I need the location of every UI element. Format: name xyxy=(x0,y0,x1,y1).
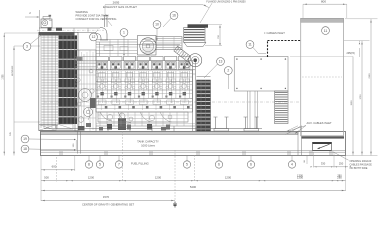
opening note xyxy=(333,152,372,170)
svg-text:18: 18 xyxy=(23,147,27,151)
balloon 6 at x=251 xyxy=(247,156,254,169)
svg-text:11: 11 xyxy=(248,43,252,47)
dimension row 500/1200/1200/1200/1300/280 xyxy=(41,175,346,181)
balloon 12 vent pipe xyxy=(90,30,98,41)
svg-text:6: 6 xyxy=(218,163,220,167)
svg-text:1000 Liters: 1000 Liters xyxy=(141,143,155,147)
svg-text:1200: 1200 xyxy=(225,175,232,179)
control cabinet xyxy=(301,18,344,138)
air outlet louvre xyxy=(275,91,289,124)
balloon 5 at x=187 xyxy=(183,156,190,169)
svg-text:1200: 1200 xyxy=(155,175,162,179)
svg-text:5: 5 xyxy=(186,163,188,167)
tank capacity note xyxy=(137,140,159,148)
left dimension 1676/1803 xyxy=(12,46,40,156)
small dimension 2 at radiator cap xyxy=(25,11,39,18)
flywheel housing xyxy=(193,60,196,131)
engine block detail xyxy=(96,70,193,112)
engine front gear housing xyxy=(75,50,96,132)
left dimension 1785 xyxy=(2,33,40,156)
dimension 60 xyxy=(304,156,307,164)
cables passage opening xyxy=(313,142,332,150)
balloon 10 air filter xyxy=(153,21,161,41)
dimension 1750 xyxy=(360,41,363,156)
svg-text:6: 6 xyxy=(250,163,252,167)
air filter silencer xyxy=(138,36,157,56)
svg-text:330: 330 xyxy=(321,162,326,166)
base end diagonal brace xyxy=(286,126,302,137)
svg-text:AUX. CABLES INLET: AUX. CABLES INLET xyxy=(307,121,332,125)
center of gravity symbol xyxy=(173,201,176,208)
dimension 330/250 opening xyxy=(311,152,352,168)
svg-text:1750: 1750 xyxy=(360,94,362,100)
svg-text:FUEL FILLING: FUEL FILLING xyxy=(131,162,149,166)
dimension 800 cabinet width xyxy=(303,0,347,18)
svg-text:ON BOTH SIDE: ON BOTH SIDE xyxy=(350,167,368,170)
engine lower pipes and oil pan xyxy=(96,112,195,130)
dimension 2160 overall height xyxy=(369,19,372,156)
svg-text:4: 4 xyxy=(291,163,293,167)
svg-text:11: 11 xyxy=(324,29,328,33)
alternator air inlet screen xyxy=(197,77,211,132)
top dimension 2695 exhaust gas outlet xyxy=(103,1,209,15)
exhaust outlet flange stack xyxy=(184,24,209,46)
svg-text:1500: 1500 xyxy=(351,100,353,106)
svg-text:280: 280 xyxy=(337,174,342,178)
engine valve covers xyxy=(75,57,192,61)
svg-text:500: 500 xyxy=(44,175,49,179)
crankshaft centerline xyxy=(44,101,300,103)
dimension 205 cables height xyxy=(347,41,361,57)
radiator top vent motor assembly xyxy=(40,10,53,33)
panel stand legs xyxy=(248,91,258,129)
aux cables inlet note xyxy=(287,121,332,134)
balloon 7 at x=119 xyxy=(115,156,122,169)
balloon 18 xyxy=(21,145,76,153)
balloon 5 at x=100 xyxy=(96,156,103,169)
coolant pipe radiator to engine xyxy=(37,28,104,33)
balloon 4 at x=292 xyxy=(288,156,295,169)
genset control panel box xyxy=(234,57,288,92)
cables inlet dashed route xyxy=(264,31,301,57)
fuel filling note xyxy=(131,162,149,166)
radiator fan guard dark strip xyxy=(57,35,77,129)
balloon 11 cabinet xyxy=(322,27,330,35)
radiator assembly xyxy=(39,32,78,130)
balloon 2 alternator xyxy=(224,67,232,89)
balloon 8 at x=89 xyxy=(85,156,92,169)
svg-text:FLANGE UNI EN1092-1 PN6 DN350: FLANGE UNI EN1092-1 PN6 DN350 xyxy=(206,0,246,3)
engine lower accessories xyxy=(99,113,174,132)
svg-text:19: 19 xyxy=(23,137,27,141)
svg-text:1200: 1200 xyxy=(88,175,95,179)
dimension 1500 xyxy=(290,57,354,156)
extension lines bottom xyxy=(41,131,346,201)
svg-text:CONNECT FOR OIL VENT PIPING: CONNECT FOR OIL VENT PIPING xyxy=(76,17,117,21)
base frame fuel tank xyxy=(41,129,346,156)
engine upper piping xyxy=(96,40,183,57)
balloon 3 radiator xyxy=(23,35,42,51)
svg-text:1300: 1300 xyxy=(297,174,303,178)
foot xyxy=(244,117,259,131)
svg-text:7: 7 xyxy=(118,163,120,167)
balloon 19 xyxy=(21,135,76,143)
svg-text:2160: 2160 xyxy=(369,73,371,79)
balloon 1 engine xyxy=(120,29,128,56)
flange label xyxy=(200,0,246,23)
dimension 1300/280 right xyxy=(297,174,342,178)
svg-text:16: 16 xyxy=(172,14,176,18)
engine front pump cluster xyxy=(78,89,96,131)
dimension 250 radiator mount xyxy=(73,140,76,150)
svg-text:ℂ CABLES INLET: ℂ CABLES INLET xyxy=(264,31,285,35)
dimension 5400 overall xyxy=(41,185,346,191)
dimension 600 xyxy=(41,164,75,170)
svg-text:1: 1 xyxy=(123,31,125,35)
svg-text:250: 250 xyxy=(339,162,344,166)
svg-text:13: 13 xyxy=(219,60,223,64)
svg-text:5: 5 xyxy=(99,163,101,167)
radiator mount post in tank xyxy=(78,132,81,154)
svg-text:WARNING: WARNING xyxy=(76,10,88,14)
svg-text:CENTER OF GRAVITY GENERATING S: CENTER OF GRAVITY GENERATING SET xyxy=(82,202,134,206)
flex bellows pipe xyxy=(174,46,190,61)
balloon 13 flywheel xyxy=(204,58,224,78)
balloon 6 at x=219 xyxy=(215,156,222,169)
svg-text:600: 600 xyxy=(52,164,57,168)
svg-text:EXHAUST GAS OUTLET: EXHAUST GAS OUTLET xyxy=(103,5,137,9)
svg-text:12: 12 xyxy=(92,35,96,39)
svg-text:1676/1803: 1676/1803 xyxy=(12,65,14,76)
charge cooler box xyxy=(156,37,182,50)
balloon 16 exhaust xyxy=(163,12,178,27)
foot xyxy=(214,117,229,131)
svg-text:10: 10 xyxy=(155,23,159,27)
radiator top header dark band xyxy=(39,32,75,35)
left dimension 535 xyxy=(10,122,40,136)
svg-text:2: 2 xyxy=(227,69,229,73)
radiator mounting bracket xyxy=(39,125,56,131)
engine cylinder heads xyxy=(75,62,195,70)
balloon 11 cables xyxy=(246,41,266,54)
svg-text:1785: 1785 xyxy=(2,74,4,80)
oil vent pipe elbow xyxy=(96,16,108,40)
svg-text:205(±5): 205(±5) xyxy=(347,52,355,55)
dimension 700 exhaust flange xyxy=(205,24,222,45)
turbocharger xyxy=(185,54,202,68)
svg-text:8: 8 xyxy=(88,163,90,167)
svg-text:5400: 5400 xyxy=(190,185,197,189)
svg-text:1570: 1570 xyxy=(103,195,110,199)
dimension 1570 center of gravity xyxy=(41,195,175,206)
svg-text:800: 800 xyxy=(321,0,326,4)
warning note oil vent piping xyxy=(76,10,117,26)
svg-text:3: 3 xyxy=(26,45,28,49)
right extension lines xyxy=(344,19,378,156)
